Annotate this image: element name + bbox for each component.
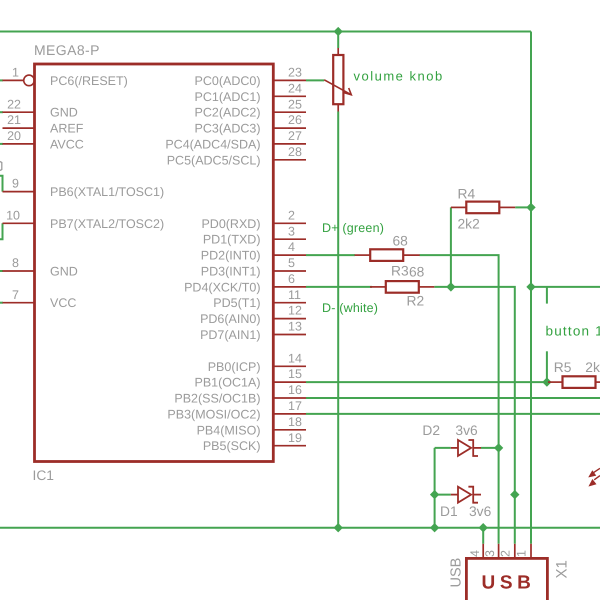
- svg-text:13: 13: [288, 320, 302, 334]
- wire diode anode rail: [434, 448, 436, 528]
- svg-text:PB7(XTAL2/TOSC2): PB7(XTAL2/TOSC2): [50, 217, 164, 231]
- svg-text:PD6(AIN0): PD6(AIN0): [200, 312, 260, 326]
- svg-text:IC1: IC1: [33, 468, 54, 483]
- zener diode D2: [451, 440, 481, 456]
- svg-text:3: 3: [288, 224, 295, 238]
- wire pin16 net to right edge: [306, 397, 600, 399]
- wire pin23 to pot wiper: [306, 79, 324, 81]
- svg-text:28: 28: [288, 145, 302, 159]
- wire D2 anode horizontal: [435, 447, 451, 449]
- svg-text:68: 68: [409, 265, 425, 280]
- pin 8 stub: [3, 270, 35, 272]
- wire GND long rail: [0, 527, 600, 529]
- svg-text:23: 23: [288, 66, 302, 80]
- wire button lower stub: [546, 351, 548, 382]
- wire left tick pin7: [0, 302, 3, 304]
- svg-text:5: 5: [288, 256, 295, 270]
- svg-text:PB4(MISO): PB4(MISO): [197, 423, 261, 437]
- svg-text:PD3(INT1): PD3(INT1): [201, 265, 261, 279]
- resistor R3: [355, 249, 420, 261]
- svg-text:D- (white): D- (white): [322, 301, 378, 315]
- svg-text:PC3(ADC3): PC3(ADC3): [195, 122, 261, 136]
- svg-text:R5: R5: [554, 360, 572, 375]
- node junction pot-rail: [334, 27, 343, 36]
- wire +5V vertical right: [530, 32, 532, 544]
- svg-text:2: 2: [288, 208, 295, 222]
- wire USB pin4 stub: [482, 528, 484, 544]
- node junction button R5: [542, 377, 551, 386]
- svg-text:1: 1: [12, 66, 19, 80]
- svg-text:3v6: 3v6: [469, 504, 492, 519]
- LED arrows at right edge: [590, 468, 600, 485]
- wire top +5V rail: [0, 31, 531, 33]
- svg-text:16: 16: [288, 383, 302, 397]
- left pin numbers: [6, 66, 21, 302]
- svg-text:68: 68: [393, 234, 409, 249]
- wire D- net R2 to corner down: [434, 287, 515, 544]
- wire R4 branch vertical: [450, 207, 452, 287]
- cut gray text fragment at left edge: [0, 162, 2, 171]
- resistor R4: [451, 202, 515, 214]
- svg-text:6: 6: [288, 272, 295, 286]
- svg-text:22: 22: [7, 97, 21, 111]
- node junction +5V corner: [526, 282, 535, 291]
- wire pin15 net to R5: [306, 381, 548, 383]
- svg-text:volume knob: volume knob: [354, 69, 444, 84]
- wire D1 anode horizontal: [435, 494, 451, 496]
- svg-text:14: 14: [288, 351, 302, 365]
- right pin numbers: [288, 66, 302, 445]
- svg-text:AVCC: AVCC: [50, 137, 84, 151]
- svg-text:AREF: AREF: [50, 122, 84, 136]
- node junction anode rail D1: [430, 490, 439, 499]
- svg-text:R3: R3: [391, 264, 409, 279]
- wire pot top feed: [337, 32, 339, 49]
- wire left tick pin22: [0, 111, 3, 113]
- pin 7 stub: [3, 302, 35, 304]
- svg-text:PC5(ADC5/SCL): PC5(ADC5/SCL): [167, 153, 261, 167]
- svg-text:27: 27: [288, 129, 302, 143]
- svg-text:PB0(ICP): PB0(ICP): [208, 360, 261, 374]
- svg-text:PC0(ADC0): PC0(ADC0): [195, 74, 261, 88]
- svg-text:25: 25: [288, 97, 302, 111]
- svg-text:PD0(RXD): PD0(RXD): [201, 217, 260, 231]
- svg-text:3: 3: [483, 550, 497, 557]
- wire button upper stub: [546, 287, 548, 304]
- wire +5V horizontal to right edge: [531, 286, 600, 288]
- svg-text:4: 4: [468, 550, 482, 557]
- left pin names: [50, 74, 164, 310]
- svg-text:7: 7: [12, 288, 19, 302]
- pin 1 PC6/RESET stub with bubble: [3, 79, 24, 81]
- right pin stubs 11-13: [273, 303, 306, 335]
- pin 22 stub: [3, 111, 35, 113]
- svg-text:PC2(ADC2): PC2(ADC2): [195, 106, 261, 120]
- node junction R4 +5V: [526, 203, 535, 212]
- svg-text:PB3(MOSI/OC2): PB3(MOSI/OC2): [167, 407, 260, 421]
- svg-text:PD1(TXD): PD1(TXD): [203, 233, 261, 247]
- svg-text:D2: D2: [422, 423, 440, 438]
- svg-text:4: 4: [288, 240, 295, 254]
- svg-text:PB1(OC1A): PB1(OC1A): [195, 376, 261, 390]
- pin 21 stub: [3, 127, 35, 129]
- svg-text:MEGA8-P: MEGA8-P: [34, 42, 100, 58]
- node junction anode rail GND: [430, 523, 439, 532]
- svg-text:1: 1: [515, 550, 529, 557]
- node junction D1 D-: [510, 490, 519, 499]
- svg-text:12: 12: [288, 304, 302, 318]
- node junction pot GND: [334, 523, 343, 532]
- wire pin17 net to right edge: [306, 413, 600, 415]
- svg-text:10: 10: [6, 208, 20, 222]
- potentiometer volume knob body: [324, 48, 351, 112]
- USB connector X1 body: [466, 558, 547, 600]
- wire pin9 elbow: [0, 176, 3, 192]
- svg-text:PD5(T1): PD5(T1): [213, 296, 260, 310]
- svg-text:PD2(INT0): PD2(INT0): [201, 249, 261, 263]
- wire R4 right to +5V: [515, 206, 531, 208]
- svg-text:PB2(SS/OC1B): PB2(SS/OC1B): [174, 392, 260, 406]
- svg-text:15: 15: [288, 367, 302, 381]
- wire left tick pin20: [0, 143, 3, 145]
- svg-text:PC1(ADC1): PC1(ADC1): [195, 90, 261, 104]
- svg-text:PC4(ADC4/SDA): PC4(ADC4/SDA): [165, 137, 260, 151]
- right pin stubs 14-19: [273, 366, 306, 445]
- svg-text:D+ (green): D+ (green): [322, 221, 384, 235]
- svg-text:2: 2: [499, 550, 513, 557]
- node junction USB pin4 GND: [479, 523, 488, 532]
- wire left tick pin1: [0, 79, 3, 81]
- wire D+ net R3 to corner: [420, 255, 499, 544]
- svg-text:PD4(XCK/T0): PD4(XCK/T0): [184, 280, 260, 294]
- wire D2 cathode to D+: [481, 447, 499, 449]
- svg-text:VCC: VCC: [50, 296, 76, 310]
- node junction R4-branch D-: [446, 282, 455, 291]
- svg-text:8: 8: [12, 256, 19, 270]
- svg-text:2k2: 2k2: [585, 360, 600, 375]
- right pin names: [165, 74, 260, 453]
- right pin stubs 2-6: [273, 223, 306, 287]
- wire D+ net pin4 to R3: [306, 254, 355, 256]
- resistor R2: [370, 281, 434, 293]
- svg-text:button 1: button 1: [546, 324, 600, 339]
- right pin stubs 23-28: [273, 80, 306, 159]
- svg-text:2k2: 2k2: [458, 217, 480, 232]
- svg-text:PC6(/RESET): PC6(/RESET): [50, 74, 128, 88]
- resistor R5: [548, 376, 600, 388]
- svg-text:PD7(AIN1): PD7(AIN1): [200, 328, 260, 342]
- pin 20 stub: [3, 143, 35, 145]
- svg-text:R4: R4: [458, 186, 476, 201]
- wire D- net pin6 to R2: [306, 286, 372, 288]
- svg-text:18: 18: [288, 415, 302, 429]
- pin 9 stub: [3, 191, 35, 193]
- svg-text:GND: GND: [50, 265, 78, 279]
- svg-text:9: 9: [12, 177, 19, 191]
- svg-text:PB5(SCK): PB5(SCK): [203, 439, 261, 453]
- op-amp IC1 MEGA8-P body: [35, 64, 274, 462]
- wire left tick pin8: [0, 270, 3, 272]
- svg-text:21: 21: [7, 113, 21, 127]
- svg-text:26: 26: [288, 113, 302, 127]
- svg-text:24: 24: [288, 81, 302, 95]
- wire pot bottom to GND rail: [337, 112, 339, 528]
- svg-text:X1: X1: [554, 560, 571, 578]
- svg-text:D1: D1: [440, 504, 458, 519]
- zener diode D1: [451, 487, 481, 503]
- svg-text:17: 17: [288, 399, 302, 413]
- node junction D2 D+: [494, 443, 503, 452]
- svg-text:20: 20: [7, 129, 21, 143]
- svg-text:11: 11: [288, 288, 301, 302]
- USB pin stubs red: [483, 544, 531, 559]
- svg-text:R2: R2: [407, 293, 425, 308]
- svg-text:PB6(XTAL1/TOSC1): PB6(XTAL1/TOSC1): [50, 185, 164, 199]
- svg-text:USB: USB: [482, 573, 536, 594]
- svg-text:19: 19: [288, 431, 302, 445]
- svg-text:USB: USB: [449, 558, 465, 588]
- svg-text:GND: GND: [50, 106, 78, 120]
- pin 10 stub: [3, 222, 35, 224]
- wire pin10 elbow: [0, 223, 3, 239]
- svg-text:3v6: 3v6: [455, 423, 478, 438]
